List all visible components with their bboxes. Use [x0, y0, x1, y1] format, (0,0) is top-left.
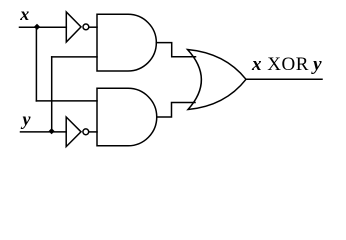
inverter NOT2 bubble	[83, 129, 89, 135]
inverter NOT1 triangle (x)	[66, 12, 81, 42]
inverter NOT1 bubble	[83, 24, 89, 30]
AND gate upper	[97, 14, 156, 71]
label output x XOR y	[252, 54, 322, 76]
wire y to upper AND bottom input	[52, 56, 97, 58]
node y junction dot	[49, 128, 55, 134]
wire lower AND output	[157, 103, 195, 118]
wire x junction vertical drop	[35, 27, 37, 101]
inverter NOT2 triangle (y)	[66, 117, 81, 147]
wire NOT2 output to lower AND	[89, 131, 97, 133]
OR gate	[188, 50, 247, 110]
wire NOT1 output to upper AND	[89, 26, 97, 28]
AND gate lower	[97, 88, 157, 146]
wire x to lower AND top input	[36, 100, 97, 102]
node x junction dot	[34, 24, 40, 30]
label y input	[23, 109, 31, 130]
label x input	[20, 4, 29, 25]
wire y junction vertical rise	[51, 57, 53, 132]
wire x input horizontal	[20, 26, 67, 28]
wire OR output	[246, 78, 322, 80]
wire y input horizontal	[21, 131, 67, 133]
wire upper AND output	[156, 43, 195, 57]
